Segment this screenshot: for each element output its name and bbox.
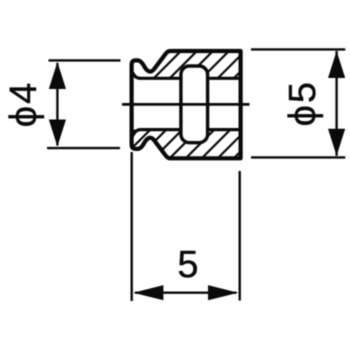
svg-text:ϕ5: ϕ5 <box>282 80 324 126</box>
svg-text:5: 5 <box>177 244 198 286</box>
svg-text:ϕ4: ϕ4 <box>3 81 45 127</box>
